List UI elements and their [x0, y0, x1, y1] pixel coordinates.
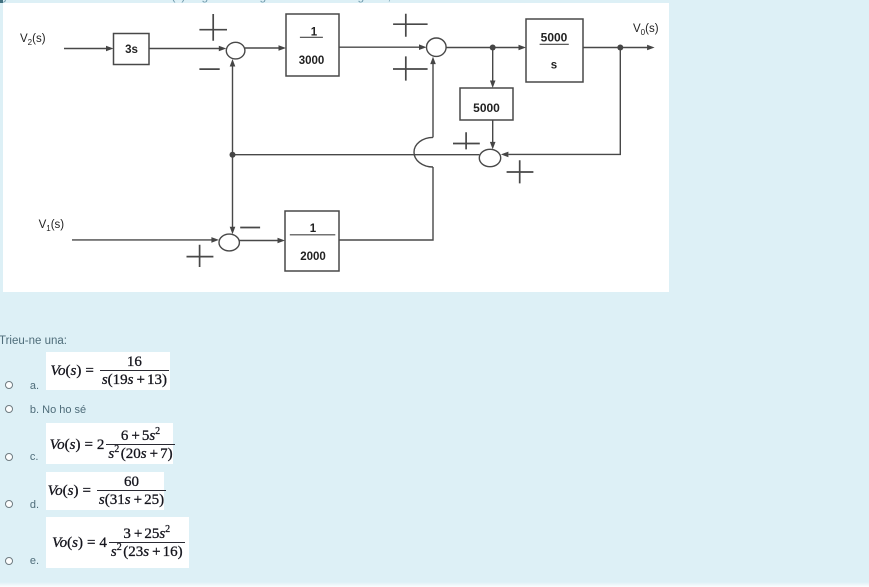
svg-text:V0(s): V0(s)	[633, 23, 659, 37]
svg-text:2000: 2000	[300, 251, 326, 263]
svg-text:3000: 3000	[299, 55, 325, 67]
svg-text:V2(s): V2(s)	[20, 33, 46, 47]
svg-text:3s: 3s	[125, 44, 138, 56]
svg-text:5000: 5000	[541, 31, 568, 45]
svg-text:s: s	[551, 60, 557, 72]
svg-text:5000: 5000	[473, 101, 500, 115]
svg-text:V1(s): V1(s)	[39, 219, 65, 233]
svg-text:1: 1	[310, 223, 317, 235]
